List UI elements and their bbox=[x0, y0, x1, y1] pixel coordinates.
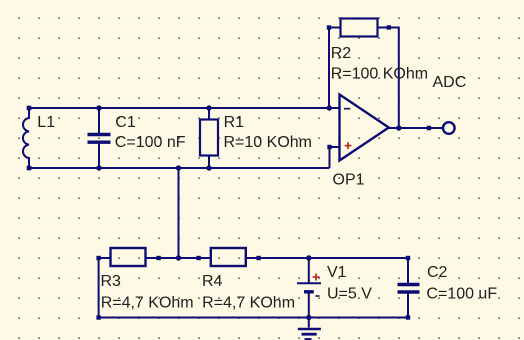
resistor R3 bbox=[111, 248, 146, 266]
voltage source V1 bbox=[297, 274, 321, 297]
node R3 right terminal bbox=[156, 256, 160, 260]
node R1 bottom junction bbox=[206, 165, 211, 170]
node R1 top junction bbox=[206, 105, 211, 110]
node L1 bottom terminal bbox=[27, 166, 32, 171]
wire middle vertical from tank to divider bbox=[178, 168, 180, 258]
wire R2 left lead down to minus node bbox=[329, 28, 341, 109]
svg-text:OP1: OP1 bbox=[333, 171, 365, 188]
node bottom-left corner terminal bbox=[96, 315, 100, 319]
svg-text:C1: C1 bbox=[115, 114, 136, 131]
svg-text:R=10 KOhm: R=10 KOhm bbox=[224, 134, 312, 151]
wire R1 bottom lead bbox=[208, 156, 210, 169]
wire ground stub bbox=[308, 318, 310, 328]
wire C2 bottom lead bbox=[407, 292, 409, 317]
node C2 bottom terminal bbox=[406, 315, 410, 319]
svg-text:V1: V1 bbox=[327, 264, 347, 281]
wire R1 top lead bbox=[208, 108, 210, 120]
wire top tank bus bbox=[28, 107, 340, 109]
svg-text:L1: L1 bbox=[37, 114, 55, 131]
svg-text:C=100 nF: C=100 nF bbox=[115, 134, 186, 151]
node R4 right terminal bbox=[256, 256, 260, 260]
wire divider row left segment bbox=[99, 257, 111, 259]
node op-amp output junction bbox=[396, 125, 401, 130]
node C1 top junction bbox=[96, 105, 101, 110]
node C1 bottom junction bbox=[96, 165, 101, 170]
node C2 top terminal bbox=[406, 256, 410, 260]
svg-text:R4: R4 bbox=[202, 273, 223, 290]
node output port terminal bbox=[427, 126, 431, 130]
node R3 left terminal bbox=[96, 256, 100, 260]
terminal squares bbox=[27, 25, 431, 319]
wire op-amp plus input jog bbox=[330, 147, 341, 168]
svg-text:C2: C2 bbox=[427, 264, 448, 281]
wire bottom bus bbox=[99, 317, 408, 319]
capacitor C2 bbox=[398, 285, 420, 293]
svg-text:R2: R2 bbox=[331, 45, 352, 62]
svg-text:ADC: ADC bbox=[433, 74, 467, 91]
node V1 bottom junction bbox=[306, 315, 311, 320]
resistor R2 bbox=[341, 19, 378, 37]
resistor R4 bbox=[211, 248, 246, 266]
svg-text:R=4,7 KOhm: R=4,7 KOhm bbox=[202, 295, 295, 312]
resistor R1 bbox=[200, 120, 218, 156]
node divider tap junction top bbox=[176, 165, 181, 170]
wire V1 bottom lead bbox=[308, 292, 310, 318]
svg-text:R=100 KOhm: R=100 KOhm bbox=[331, 66, 428, 83]
wire R2 right lead and feedback vertical bbox=[378, 28, 399, 129]
node op-amp plus corner terminal bbox=[327, 145, 331, 149]
svg-text:R3: R3 bbox=[101, 273, 122, 290]
ground bbox=[298, 329, 321, 339]
node inverting input junction bbox=[327, 105, 332, 110]
wire divider row right segment bbox=[246, 257, 408, 259]
wire C1 bottom lead bbox=[98, 144, 100, 169]
svg-text:C=100 uF: C=100 uF bbox=[426, 286, 497, 303]
wire bottom tank bus bbox=[28, 167, 330, 169]
node L1 top terminal bbox=[27, 106, 32, 111]
svg-text:U=5 V: U=5 V bbox=[327, 286, 372, 303]
node ADC output port bbox=[443, 122, 455, 134]
svg-text:R1: R1 bbox=[224, 114, 245, 131]
wire C2 top lead bbox=[407, 258, 409, 283]
capacitor C1 bbox=[88, 135, 111, 143]
wire C1 top lead bbox=[98, 108, 100, 133]
node R2 right terminal bbox=[387, 25, 391, 29]
wire op-amp output bbox=[389, 127, 443, 129]
node R2 left terminal bbox=[327, 25, 331, 29]
node divider tap junction bottom bbox=[176, 255, 181, 260]
wire left vertical of bottom loop bbox=[98, 258, 100, 318]
node R4 left terminal bbox=[196, 256, 200, 260]
inductor L1 bbox=[23, 108, 29, 168]
op-amp OP1 bbox=[340, 95, 389, 161]
svg-text:R=4,7 KOhm: R=4,7 KOhm bbox=[101, 295, 194, 312]
node V1 top junction bbox=[306, 255, 311, 260]
wire divider row middle segment bbox=[146, 257, 211, 259]
wire V1 top lead bbox=[308, 258, 310, 283]
